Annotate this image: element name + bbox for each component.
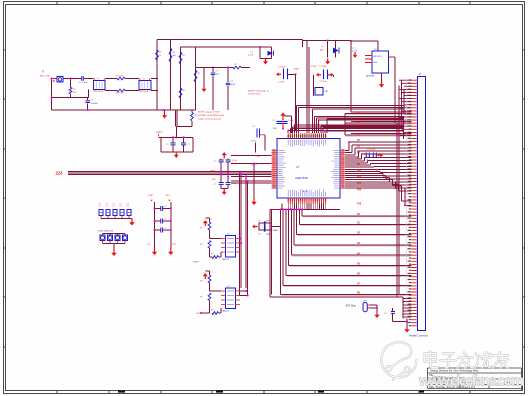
- svg-text:C?: C?: [112, 206, 114, 208]
- bus lines: [68, 171, 272, 173]
- svg-text:223: 223: [56, 171, 64, 176]
- svg-text:Analog Devices Inc. One Techn: Analog Devices Inc. One Technology Way: [430, 368, 479, 372]
- svg-text:www.elecfans.com: www.elecfans.com: [418, 374, 524, 390]
- svg-text:C? 0.1: C? 0.1: [251, 141, 258, 143]
- svg-text:ADE7878: ADE7878: [295, 176, 308, 180]
- VDD cap cluster: [282, 116, 284, 121]
- svg-text:0.1uF: 0.1uF: [248, 55, 254, 57]
- svg-text:VREF: VREF: [210, 171, 216, 173]
- ground left: [164, 110, 166, 113]
- svg-text:C?: C?: [164, 219, 166, 221]
- opto U4: [204, 276, 206, 279]
- svg-text:C? 3nF: C? 3nF: [320, 81, 327, 83]
- cap mid2: [227, 68, 229, 83]
- svg-text:C?x: C?x: [147, 244, 150, 246]
- resistor R2: [117, 77, 125, 80]
- rung caps: [155, 208, 161, 210]
- caps pair below left: [257, 129, 260, 138]
- svg-text:VDD?: VDD?: [361, 154, 366, 156]
- svg-text:C?: C?: [98, 206, 100, 208]
- svg-text:ADR280: ADR280: [366, 75, 375, 78]
- watermark text (hand-drawn CJK strokes): [425, 352, 438, 368]
- wire top run: [63, 78, 81, 80]
- cap mid1: [212, 68, 214, 73]
- wires into IC left: [231, 154, 272, 156]
- wire to regulator: [351, 40, 378, 42]
- svg-text:P12: P12: [357, 177, 362, 179]
- svg-text:C? 1 xfmr: C? 1 xfmr: [79, 81, 88, 84]
- cap pair upper: [223, 155, 225, 159]
- svg-text:VIN VOUT: VIN VOUT: [373, 56, 383, 58]
- resistor small top: [233, 66, 241, 69]
- cap C1 series: [82, 76, 84, 81]
- vref descent pair: [175, 110, 177, 127]
- svg-text:C?: C?: [164, 228, 166, 230]
- svg-text:XXXX XXXX XX: XXXX XXXX XX: [98, 231, 114, 233]
- svg-text:SCL: SCL: [356, 133, 361, 136]
- svg-text:NOTE: Lay out CT/CH,: NOTE: Lay out CT/CH,: [198, 111, 221, 114]
- connector J2: [417, 77, 425, 331]
- resistor Rv5: [179, 88, 182, 98]
- svg-text:1M: 1M: [173, 55, 176, 57]
- svg-text:C? 3nF: C? 3nF: [278, 81, 285, 83]
- svg-text:CR2550-B: CR2550-B: [93, 91, 103, 93]
- svg-text:NOTE: Keep leads to: NOTE: Keep leads to: [248, 90, 269, 93]
- svg-text:P10: P10: [357, 171, 362, 173]
- watermark logo: [381, 342, 416, 379]
- svg-text:10uF: 10uF: [231, 84, 236, 86]
- svg-text:0.1uF: 0.1uF: [232, 183, 238, 185]
- svg-text:C? 38nF: C? 38nF: [319, 66, 327, 68]
- resistor Rv3: [179, 52, 182, 64]
- transformer T2: [139, 81, 151, 90]
- resistor Rv4: [194, 70, 197, 82]
- svg-text:CLK: CLK: [356, 112, 361, 115]
- svg-text:C?: C?: [126, 206, 128, 208]
- pin to merge verticals: [288, 204, 325, 210]
- svg-text:ANT Chip: ANT Chip: [346, 304, 357, 307]
- bottom long wire: [52, 109, 164, 111]
- circles row: [100, 235, 105, 241]
- divider grounds: [154, 248, 156, 252]
- title block: [428, 368, 522, 391]
- crystal A: [279, 73, 282, 75]
- svg-text:VN?: VN?: [212, 179, 216, 181]
- jog droppers near connector: [403, 116, 405, 139]
- top pin risers and jogs: [287, 130, 289, 133]
- divider verticals: [154, 202, 156, 248]
- bottom staircase: [281, 208, 341, 210]
- svg-text:R17/R8, and R12/R13 with: R17/R8, and R12/R13 with: [198, 114, 225, 117]
- right area labeled buses: [351, 111, 412, 113]
- op IC U1 ADE7878: [277, 139, 340, 198]
- svg-text:XX?: XX?: [173, 244, 177, 246]
- svg-text:U?: U?: [296, 165, 300, 169]
- svg-text:P18: P18: [357, 204, 362, 206]
- svg-text:SDA: SDA: [356, 122, 361, 125]
- wire label C 0.1: [255, 143, 257, 153]
- svg-text:R? 0.47: R? 0.47: [116, 75, 124, 77]
- svg-text:P14: P14: [357, 182, 362, 185]
- regulator out wire: [394, 57, 396, 123]
- cap C2 on drop: [87, 98, 89, 100]
- opto U3: [204, 223, 206, 226]
- svg-text:R? 0.47: R? 0.47: [116, 93, 124, 95]
- svg-text:to NOT short.: to NOT short.: [248, 93, 261, 96]
- svg-text:GND: GND: [373, 62, 378, 64]
- svg-text:BLK_4TB: BLK_4TB: [40, 76, 50, 78]
- svg-text:0.033uF: 0.033uF: [91, 103, 99, 105]
- ferrite FB: [315, 88, 323, 96]
- wire bottom run: [105, 90, 117, 92]
- left verticals down: [239, 173, 241, 296]
- lower connector feeds: [402, 297, 404, 319]
- svg-text:C?: C?: [164, 206, 166, 208]
- fuse R1: [69, 87, 72, 94]
- svg-text:C?: C?: [105, 206, 107, 208]
- svg-text:C? 0.1uF: C? 0.1uF: [367, 149, 376, 151]
- svg-text:Parallel Connector: Parallel Connector: [409, 335, 428, 338]
- vref caps: [171, 143, 187, 145]
- crystal loop B: [327, 41, 329, 58]
- connector ground: [406, 319, 408, 328]
- svg-text:TXD?: TXD?: [193, 262, 199, 264]
- resistor below: [191, 110, 193, 112]
- vref box wires: [159, 136, 194, 138]
- vref ground: [175, 152, 177, 155]
- svg-text:XTAL?: XTAL?: [272, 229, 279, 232]
- svg-text:VREF?: VREF?: [156, 132, 164, 134]
- svg-text:VDD: VDD: [273, 128, 278, 130]
- transformer T1: [94, 81, 106, 90]
- svg-text:P16: P16: [357, 189, 362, 191]
- right pin fan: [348, 142, 350, 151]
- cap pair lower: [219, 183, 231, 185]
- long mid verticals: [306, 41, 308, 134]
- top loop wires: [157, 39, 303, 41]
- wire T1 left bottom: [88, 90, 90, 98]
- connector upper feed wires: [398, 85, 400, 135]
- svg-text:0.1uF: 0.1uF: [232, 160, 238, 162]
- outer left drop: [269, 209, 271, 296]
- resistor R3: [117, 89, 125, 92]
- svg-text:XTAL?: XTAL?: [311, 65, 318, 68]
- svg-text:MAX-X: MAX-X: [223, 258, 230, 261]
- RTC crystal Y1: [255, 226, 258, 228]
- svg-text:C?: C?: [258, 221, 260, 223]
- svg-text:C?: C?: [258, 234, 260, 236]
- jack symbol: [57, 77, 63, 83]
- connector halo columns: [407, 80, 417, 326]
- crystal loop A: [259, 47, 261, 59]
- svg-text:MAX-X: MAX-X: [223, 310, 230, 313]
- svg-text:C?: C?: [119, 206, 121, 208]
- ground mid: [203, 68, 205, 87]
- resistor Rv2: [169, 48, 172, 62]
- svg-text:simple common ground.: simple common ground.: [198, 117, 222, 120]
- svg-text:XTAL?: XTAL?: [294, 67, 301, 70]
- resistor Rv1: [156, 50, 159, 60]
- squares ground: [131, 219, 133, 223]
- jack pins: [53, 79, 58, 82]
- svg-text:CR2550-B: CR2550-B: [139, 91, 149, 93]
- svg-text:C? 33nF: C? 33nF: [278, 67, 286, 69]
- regulator ground: [381, 73, 383, 81]
- regulator U2: [372, 51, 389, 73]
- svg-text:VCA?: VCA?: [148, 194, 154, 197]
